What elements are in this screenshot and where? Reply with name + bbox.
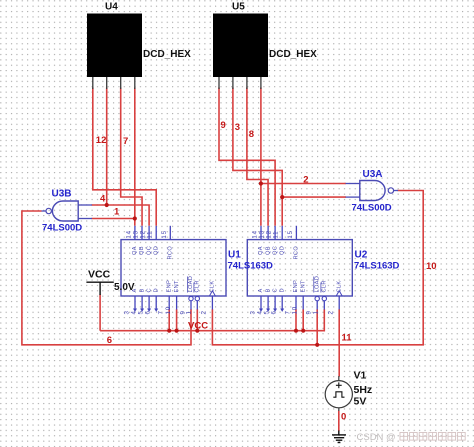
U3B output bubble bbox=[46, 208, 51, 213]
junction U1 CLR on VCC rail bbox=[195, 329, 199, 333]
svg-text:11: 11 bbox=[342, 333, 353, 344]
junction U5 pin2 / U3A inB bbox=[280, 195, 284, 199]
svg-text:QC: QC bbox=[272, 246, 278, 255]
svg-text:A: A bbox=[132, 288, 138, 292]
svg-text:ENT: ENT bbox=[174, 280, 180, 293]
svg-text:13: 13 bbox=[259, 230, 266, 238]
U2 CLR overbar bbox=[320, 283, 322, 293]
U1 pin numbers top: 14 13 12 11 15 bbox=[125, 230, 167, 238]
U3A input stubs bbox=[346, 184, 360, 198]
svg-text:3: 3 bbox=[123, 310, 130, 314]
wire net 11: U2 CLK down to V1 bbox=[338, 309, 340, 376]
VCC power symbol bbox=[86, 282, 113, 295]
svg-text:4: 4 bbox=[100, 194, 106, 205]
U2 pin numbers top: 14 13 12 11 15 bbox=[252, 230, 294, 238]
svg-text:B: B bbox=[139, 288, 145, 292]
svg-text:4: 4 bbox=[256, 310, 263, 314]
junction U2 LOAD on clock rail bbox=[315, 343, 319, 347]
svg-text:U5: U5 bbox=[232, 2, 245, 13]
svg-text:ENT: ENT bbox=[300, 280, 306, 293]
junction U1 ENP on VCC rail bbox=[167, 329, 171, 333]
counter U1 74LS163D body bbox=[121, 240, 226, 296]
svg-text:1: 1 bbox=[186, 310, 193, 314]
svg-text:8: 8 bbox=[249, 129, 254, 140]
svg-text:6: 6 bbox=[271, 310, 278, 314]
svg-text:9: 9 bbox=[306, 310, 313, 314]
wire U5 pin3 to U2 pin13 (net 8) bbox=[247, 88, 268, 226]
U2 ENP,ENT pin stubs (pins 7,10) bbox=[296, 296, 303, 310]
svg-text:U1: U1 bbox=[228, 249, 241, 260]
wire U4 pin2 to net 4 junction bbox=[106, 88, 108, 206]
svg-text:VCC: VCC bbox=[88, 269, 111, 281]
svg-text:C: C bbox=[272, 288, 278, 292]
svg-text:14: 14 bbox=[125, 230, 132, 238]
svg-text:6: 6 bbox=[107, 335, 112, 346]
svg-text:14: 14 bbox=[252, 230, 259, 238]
wire VCC rail to U2 CLR bbox=[100, 309, 324, 330]
svg-text:9: 9 bbox=[221, 120, 226, 131]
svg-text:A: A bbox=[258, 288, 264, 292]
svg-text:CSDN @: CSDN @ bbox=[357, 432, 396, 443]
display U5 pin stubs bbox=[219, 77, 261, 89]
svg-text:D: D bbox=[279, 288, 285, 292]
svg-text:6: 6 bbox=[145, 310, 152, 314]
watermark chinese blocks bbox=[400, 433, 465, 441]
svg-text:LOAD: LOAD bbox=[188, 276, 194, 293]
svg-text:12: 12 bbox=[96, 135, 107, 146]
svg-text:VCC: VCC bbox=[188, 321, 208, 332]
svg-text:12: 12 bbox=[140, 230, 147, 238]
svg-text:ENP: ENP bbox=[166, 280, 172, 293]
U2 bottom pin stubs A,B,C,D (pins 3,4,5,6) with arrowheads bbox=[261, 296, 282, 310]
U2 LOAD pin 9 bubble and stub bbox=[315, 296, 319, 300]
svg-text:QB: QB bbox=[265, 246, 271, 255]
nand gate U3A body (output right) bbox=[360, 181, 385, 201]
svg-text:U4: U4 bbox=[105, 2, 118, 13]
svg-text:15: 15 bbox=[287, 230, 294, 238]
svg-text:CLK: CLK bbox=[210, 281, 216, 293]
display U4 body bbox=[87, 14, 142, 78]
svg-text:11: 11 bbox=[273, 231, 280, 239]
wire U2 ENT drop bbox=[302, 309, 304, 330]
svg-text:7: 7 bbox=[123, 136, 128, 147]
svg-text:QA: QA bbox=[132, 246, 138, 255]
svg-text:QD: QD bbox=[153, 246, 159, 255]
svg-text:CLK: CLK bbox=[336, 281, 342, 293]
U1 pin numbers bottom: 3 4 5 6 7 10 9 1 2 bbox=[123, 306, 207, 314]
wire net 1: U3B input B bbox=[92, 218, 135, 220]
V1 plus sign bbox=[336, 382, 342, 388]
U2 pin numbers bottom: 3 4 5 6 7 10 9 1 2 bbox=[249, 306, 334, 314]
U2 pin names A B C D ENP ENT LOAD CLR CLK bbox=[258, 276, 342, 293]
svg-text:U3B: U3B bbox=[52, 189, 72, 200]
U2 top pin stubs (pins 14,13,12,11,15) bbox=[261, 226, 296, 240]
svg-text:DCD_HEX: DCD_HEX bbox=[269, 49, 317, 60]
wire V1 minus to ground bbox=[338, 411, 340, 432]
svg-text:V1: V1 bbox=[354, 370, 367, 382]
nand gate U3B body (mirrored, output left) bbox=[52, 201, 78, 221]
svg-text:2: 2 bbox=[303, 175, 308, 186]
junction U2 ENT on VCC rail bbox=[301, 329, 305, 333]
wire U5 pin2 to U2 pin11 (net 3) bbox=[233, 88, 282, 226]
voltage source V1 bbox=[325, 376, 352, 411]
svg-text:QD: QD bbox=[279, 246, 285, 255]
svg-text:QB: QB bbox=[139, 246, 145, 255]
U1 ENP,ENT pin stubs (pins 7,10) bbox=[169, 296, 176, 310]
svg-text:1: 1 bbox=[313, 310, 320, 314]
svg-text:10: 10 bbox=[292, 306, 299, 314]
ground symbol bbox=[332, 431, 346, 443]
svg-text:CLR: CLR bbox=[195, 280, 201, 292]
svg-text:5V: 5V bbox=[354, 396, 367, 408]
wire U1 CLR drop bbox=[196, 309, 198, 330]
wire U5 pin1 to U2 pin12 bbox=[219, 88, 275, 226]
wire U5 pin4 to U2 pin14 (net 9) bbox=[260, 88, 262, 226]
display U4 pin stubs bbox=[93, 77, 135, 89]
U1 CLR pin 1 bubble and stub bbox=[195, 296, 199, 300]
svg-text:RCO: RCO bbox=[294, 246, 300, 260]
svg-text:QA: QA bbox=[258, 246, 264, 255]
wire net 4: U3B input A to U1 pin12 bbox=[92, 205, 150, 226]
wire VCC symbol drop bbox=[99, 295, 101, 331]
svg-text:ENP: ENP bbox=[293, 280, 299, 293]
svg-text:3: 3 bbox=[249, 310, 256, 314]
svg-text:74LS163D: 74LS163D bbox=[354, 261, 400, 272]
svg-text:QC: QC bbox=[146, 246, 152, 255]
svg-text:74LS00D: 74LS00D bbox=[352, 203, 392, 214]
U3B output stub bbox=[42, 210, 47, 212]
svg-text:LOAD: LOAD bbox=[314, 276, 320, 293]
svg-text:5: 5 bbox=[137, 310, 144, 314]
svg-text:74LS00D: 74LS00D bbox=[42, 223, 82, 234]
svg-text:C: C bbox=[146, 288, 152, 292]
svg-text:7: 7 bbox=[158, 310, 165, 314]
U1 CLR overbar bbox=[193, 283, 195, 293]
U1 LOAD overbar bbox=[187, 277, 189, 293]
junction net 1 (U4 pin4 / U3B inB) bbox=[133, 216, 137, 220]
wire U2 ENP drop bbox=[295, 309, 297, 330]
svg-text:U3A: U3A bbox=[363, 169, 383, 180]
svg-text:DCD_HEX: DCD_HEX bbox=[143, 49, 191, 60]
svg-text:3: 3 bbox=[235, 122, 240, 133]
svg-text:74LS163D: 74LS163D bbox=[228, 261, 274, 272]
wire U4 pin3 to U1 pin13 (net 7) bbox=[121, 88, 142, 226]
counter U2 74LS163D body bbox=[247, 240, 352, 296]
wire net 2: U2 QA to U3A input A bbox=[261, 183, 346, 185]
U1 CLK pin 2 stub and edge triangle bbox=[211, 296, 213, 310]
svg-text:7: 7 bbox=[284, 310, 291, 314]
U2 LOAD overbar bbox=[313, 277, 315, 293]
wire U2 LOAD drop bbox=[316, 309, 318, 345]
svg-text:2: 2 bbox=[328, 310, 335, 314]
svg-text:11: 11 bbox=[147, 231, 154, 239]
junction U2 ENP on VCC rail bbox=[294, 329, 298, 333]
svg-text:B: B bbox=[265, 288, 271, 292]
svg-text:15: 15 bbox=[161, 230, 168, 238]
U3A output bubble bbox=[388, 188, 393, 193]
U3B input stubs bbox=[78, 205, 92, 219]
wire U3A output (net 10) down right side to clock rail bbox=[212, 191, 423, 345]
svg-text:1: 1 bbox=[114, 206, 120, 217]
V1 square-wave glyph bbox=[333, 392, 344, 397]
display U5 body bbox=[213, 14, 268, 78]
svg-text:4: 4 bbox=[130, 310, 137, 314]
svg-text:U2: U2 bbox=[355, 249, 368, 260]
svg-text:5Hz: 5Hz bbox=[354, 384, 373, 396]
svg-text:5: 5 bbox=[263, 310, 270, 314]
wire U1 ENT drop bbox=[176, 309, 178, 330]
U1 bottom pin stubs A,B,C,D (pins 3,4,5,6) with arrowheads bbox=[135, 296, 156, 310]
U1 top pin stubs (pins 14,13,12,11,15) bbox=[135, 226, 170, 240]
svg-text:RCO: RCO bbox=[168, 246, 174, 260]
wire U1 ENP drop bbox=[168, 309, 170, 330]
wire U3B output (net 6) down left side bbox=[22, 211, 191, 345]
wire U2 QD to U3A input B bbox=[282, 196, 346, 198]
svg-text:10: 10 bbox=[165, 306, 172, 314]
svg-text:12: 12 bbox=[266, 230, 273, 238]
U2 CLK pin 2 stub and edge triangle bbox=[338, 296, 340, 310]
junction net 2 (U5 pin4 / U3A inA) bbox=[259, 181, 263, 185]
U1 pin names QA QB QC QD RCO bbox=[132, 246, 173, 260]
svg-text:2: 2 bbox=[201, 310, 208, 314]
U3A output stub bbox=[394, 190, 398, 192]
svg-text:10: 10 bbox=[426, 261, 437, 272]
svg-text:CLR: CLR bbox=[322, 280, 328, 292]
U1 LOAD pin 9 bubble and stub bbox=[189, 296, 193, 300]
wire U4 pin4 to U1 pin14 (net 1) bbox=[134, 88, 136, 226]
U2 pin names QA QB QC QD RCO bbox=[258, 246, 299, 260]
svg-text:0: 0 bbox=[341, 411, 346, 422]
svg-text:13: 13 bbox=[133, 230, 140, 238]
svg-text:D: D bbox=[153, 288, 159, 292]
U2 CLR pin 1 bubble and stub bbox=[322, 296, 326, 300]
junction U1 ENT on VCC rail bbox=[175, 329, 179, 333]
junction net 4 (U4 pin2 / U3B inA) bbox=[105, 203, 109, 207]
wire U4 pin1 to U1 pin11 (net 12) bbox=[93, 88, 156, 226]
U1 pin names A B C D ENP ENT LOAD CLR CLK bbox=[132, 276, 215, 293]
